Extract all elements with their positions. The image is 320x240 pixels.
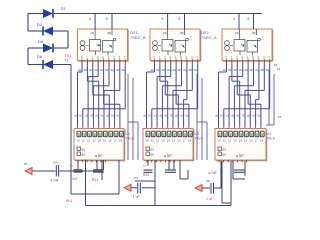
display DIS2 block [143, 129, 194, 161]
wire segment mesh column 2 [147, 62, 198, 127]
label segment names column 2 [151, 68, 198, 72]
svg-text:14: 14 [98, 139, 102, 143]
svg-text:74LS: 74LS [126, 137, 135, 141]
svg-text:Db: Db [84, 68, 88, 72]
wire U2 pin to rail b [184, 14, 186, 30]
svg-text:g1: g1 [175, 114, 179, 118]
capacitor C4 input [55, 165, 57, 177]
svg-text:T1: T1 [64, 58, 69, 63]
wire display3 pin a down [220, 161, 222, 188]
svg-text:Dh: Dh [189, 68, 193, 72]
svg-text:U2: U2 [195, 132, 200, 136]
wire display1 pin d down [101, 160, 103, 180]
wire input3 to C8 [202, 187, 210, 189]
svg-text:(3): (3) [163, 31, 167, 35]
wire left drop to PL1 [70, 65, 72, 195]
svg-text:12: 12 [228, 139, 232, 143]
svg-text:C6: C6 [134, 176, 138, 180]
svg-text:15: 15 [244, 139, 248, 143]
svg-text:1n: 1n [143, 164, 147, 168]
wire C1 to U1 pins [59, 170, 103, 172]
label segment names column 1 [78, 68, 125, 72]
optocoupler driver U3 top block [222, 29, 273, 61]
pins display 3 bottom red ticks [219, 160, 247, 162]
svg-text:17: 17 [183, 139, 187, 143]
wire U1 pin to rail a [94, 14, 96, 30]
svg-text:Dg: Dg [255, 68, 259, 72]
svg-text:16: 16 [249, 139, 253, 143]
svg-text:1n: 1n [70, 164, 74, 168]
svg-text:Dh: Dh [261, 68, 265, 72]
svg-text:18: 18 [260, 139, 264, 143]
pins display 1 top red ticks [78, 126, 120, 131]
svg-text:18: 18 [188, 139, 192, 143]
svg-text:R22: R22 [143, 173, 149, 177]
wire display2 pin c down [168, 160, 170, 170]
svg-text:12: 12 [87, 139, 91, 143]
svg-text:1 uF: 1 uF [206, 197, 213, 201]
svg-text:R21: R21 [92, 178, 98, 182]
svg-text:8: 8 [179, 17, 181, 21]
svg-text:Df: Df [105, 68, 108, 72]
svg-text:C8: C8 [206, 179, 210, 183]
wire segment mesh column 1 [78, 62, 126, 127]
svg-text:a1: a1 [143, 114, 147, 118]
svg-text:Dk: Dk [266, 68, 270, 72]
wire bypass right of display 1 [128, 74, 138, 160]
wire U3 pin to rail a [238, 14, 240, 30]
diode D4 [43, 60, 53, 69]
svg-text:11: 11 [151, 139, 154, 143]
wire display1 pin b down to rail [85, 160, 87, 205]
svg-text:14: 14 [239, 139, 243, 143]
svg-text:c1: c1 [154, 114, 158, 118]
svg-text:D6: D6 [37, 54, 43, 59]
diode D1 [43, 9, 53, 18]
display DIS3 block [215, 129, 267, 161]
svg-text:e1: e1 [236, 114, 240, 118]
capacitor C3 [93, 170, 104, 172]
svg-text:Dh: Dh [116, 68, 120, 72]
wire U1 pin to rail b [111, 14, 113, 30]
capacitor C2 [74, 170, 83, 172]
wire display2 pin b down to rail [154, 160, 156, 205]
wire C6 to rail [142, 187, 156, 189]
svg-text:1 uF: 1 uF [133, 195, 140, 199]
svg-text:14: 14 [277, 67, 281, 71]
pins display 2 bottom red ticks [147, 160, 175, 162]
svg-text:d1: d1 [90, 114, 94, 118]
svg-text:P1: P1 [24, 162, 28, 166]
svg-text:14: 14 [167, 139, 171, 143]
svg-text:f1: f1 [242, 114, 245, 118]
svg-text:a1: a1 [74, 114, 78, 118]
svg-text:13: 13 [161, 139, 165, 143]
svg-text:Da: Da [151, 68, 155, 72]
diode D2 [43, 27, 53, 36]
svg-text:Db: Db [228, 68, 232, 72]
wire input1 to C1 [32, 170, 56, 172]
svg-text:b1: b1 [149, 114, 153, 118]
wire diode loop left lower [27, 48, 29, 65]
svg-text:17: 17 [114, 139, 118, 143]
svg-text:U3: U3 [267, 132, 272, 136]
wire PL1 rail [71, 193, 119, 195]
pins U3 bottom red ticks [227, 59, 270, 61]
svg-text:De: De [172, 68, 176, 72]
svg-text:(3): (3) [91, 31, 95, 35]
svg-text:8: 8 [106, 17, 108, 21]
svg-text:g1: g1 [247, 114, 251, 118]
pins U1 bottom red ticks [82, 59, 125, 61]
svg-text:◄ BIT: ◄ BIT [163, 154, 172, 158]
svg-text:h1: h1 [180, 114, 184, 118]
wire segment mesh column 3 [219, 62, 270, 127]
svg-text:74LS: 74LS [195, 137, 204, 141]
svg-text:De: De [244, 68, 248, 72]
svg-text:6: 6 [162, 17, 164, 21]
optocoupler driver U2 top block [150, 29, 201, 61]
wire diode loop left upper [27, 14, 29, 32]
pins display 3 top red ticks [219, 126, 261, 131]
svg-text:k1: k1 [117, 114, 121, 118]
svg-text:B1: B1 [151, 148, 155, 152]
svg-text:16: 16 [278, 115, 282, 119]
wire display1 pin c down [96, 160, 98, 170]
optocoupler driver U1 top block [78, 29, 129, 61]
svg-text:c1: c1 [85, 114, 89, 118]
svg-text:Dg: Dg [111, 68, 115, 72]
wire top +V rail [28, 13, 43, 15]
svg-text:Dc: Dc [234, 68, 238, 72]
display DIS1 block [74, 129, 125, 161]
wire display2 jog [180, 178, 188, 180]
wire display1 right return [118, 160, 120, 194]
wire input2 to C6 [131, 187, 137, 189]
wire display3 jog [233, 178, 245, 180]
wire bottom jog col3 [222, 202, 231, 204]
wire display2 pin d down [179, 160, 181, 179]
svg-text:◄ BIT: ◄ BIT [235, 154, 244, 158]
svg-text:Da: Da [78, 68, 82, 72]
svg-text:15: 15 [172, 139, 176, 143]
svg-text:d1: d1 [231, 114, 235, 118]
svg-text:18: 18 [119, 139, 123, 143]
svg-text:4.7uF: 4.7uF [50, 179, 59, 183]
wire C8 to node [214, 187, 222, 189]
svg-text:10: 10 [77, 139, 81, 143]
svg-text:f1: f1 [170, 114, 173, 118]
wire ground rail [86, 205, 232, 207]
svg-text:D1: D1 [61, 7, 65, 11]
svg-text:Df: Df [178, 68, 181, 72]
capacitor C7 [234, 170, 245, 172]
diode D3 [43, 44, 53, 53]
label pin names column 3 [215, 114, 261, 118]
svg-text:12: 12 [156, 139, 160, 143]
connector arrow input 1 [25, 168, 32, 175]
svg-text:B2: B2 [82, 153, 86, 157]
svg-text:De: De [100, 68, 104, 72]
connector arrow input 2 [124, 184, 131, 191]
wire bypass right of display 3 [266, 70, 274, 125]
svg-text:Dc: Dc [89, 68, 93, 72]
svg-text:U1: U1 [126, 132, 131, 136]
svg-text:10: 10 [146, 139, 150, 143]
svg-text:Db: Db [156, 68, 160, 72]
wire col2 stub [135, 180, 155, 182]
wire display3 pin c down [232, 161, 234, 179]
svg-text:Da: Da [223, 68, 227, 72]
wire U3 pin to rail b [253, 14, 255, 30]
svg-text:6: 6 [89, 17, 91, 21]
wire node down [221, 161, 223, 203]
svg-text:(8): (8) [108, 31, 112, 35]
svg-text:k1: k1 [258, 114, 262, 118]
svg-text:a1: a1 [215, 114, 219, 118]
svg-text:Dd: Dd [95, 68, 99, 72]
svg-text:b1: b1 [221, 114, 225, 118]
svg-text:16: 16 [177, 139, 181, 143]
wire U2 pin to rail a [167, 14, 169, 30]
svg-text:74LS: 74LS [267, 137, 276, 141]
svg-text:B2: B2 [223, 153, 227, 157]
label pin names column 1 [74, 114, 120, 118]
svg-text:C4: C4 [53, 161, 57, 165]
svg-text:11: 11 [82, 139, 85, 143]
svg-text:6: 6 [233, 17, 235, 21]
svg-text:c1: c1 [226, 114, 230, 118]
svg-text:Df: Df [250, 68, 253, 72]
svg-text:Dk: Dk [122, 68, 126, 72]
svg-text:PL1: PL1 [66, 199, 72, 203]
svg-text:d1: d1 [159, 114, 163, 118]
svg-text:17: 17 [255, 139, 259, 143]
svg-text:4u7: 4u7 [72, 177, 78, 181]
wire D4 row [28, 64, 43, 66]
svg-text:b1: b1 [80, 114, 84, 118]
wire D2 row [28, 30, 43, 32]
svg-text:16: 16 [108, 139, 112, 143]
svg-text:D4: D4 [38, 39, 44, 44]
svg-text:4.7uF: 4.7uF [208, 171, 217, 175]
svg-text:7SEG_A: 7SEG_A [201, 35, 217, 40]
svg-text:13: 13 [92, 139, 96, 143]
svg-text:◄ BIT: ◄ BIT [94, 154, 103, 158]
svg-text:15: 15 [103, 139, 107, 143]
svg-text:(8): (8) [252, 31, 256, 35]
svg-text:Dc: Dc [162, 68, 166, 72]
svg-text:h1: h1 [111, 114, 115, 118]
svg-text:13: 13 [233, 139, 237, 143]
wire D3 row [28, 47, 43, 49]
svg-text:(8): (8) [180, 31, 184, 35]
label pin names column 2 [143, 114, 189, 118]
svg-text:Dd: Dd [167, 68, 171, 72]
svg-text:g1: g1 [106, 114, 110, 118]
pins display 1 bottom red ticks [78, 160, 106, 162]
wire display3 pin d down [244, 161, 246, 176]
label segment names column 3 [223, 68, 270, 72]
svg-text:11: 11 [223, 139, 226, 143]
svg-text:B2: B2 [151, 153, 155, 157]
svg-text:B1: B1 [223, 148, 227, 152]
svg-text:f1: f1 [101, 114, 104, 118]
svg-text:Dg: Dg [183, 68, 187, 72]
pins U2 bottom red ticks [155, 59, 198, 61]
svg-text:e1: e1 [164, 114, 168, 118]
svg-text:h1: h1 [252, 114, 256, 118]
svg-text:e1: e1 [95, 114, 99, 118]
pins display 2 top red ticks [147, 126, 189, 131]
connector arrow input 3 [195, 185, 202, 192]
svg-text:Dk: Dk [194, 68, 198, 72]
svg-text:(3): (3) [235, 31, 239, 35]
capacitor C4 [144, 170, 153, 172]
svg-text:D2: D2 [37, 22, 43, 27]
svg-text:k1: k1 [186, 114, 190, 118]
svg-text:7SEG_B: 7SEG_B [130, 35, 146, 40]
wire display2 pin a down [147, 160, 149, 166]
wire bypass right of display 2 [197, 74, 207, 160]
svg-text:8: 8 [248, 17, 250, 21]
wire display1 pin a down [77, 160, 79, 170]
svg-text:B1: B1 [82, 148, 86, 152]
capacitor C5 [165, 170, 176, 172]
capacitor C8 [206, 183, 214, 201]
svg-text:10: 10 [218, 139, 222, 143]
capacitor C6 [133, 183, 141, 199]
svg-text:Dd: Dd [239, 68, 243, 72]
wire diode mid vertical [67, 31, 69, 48]
